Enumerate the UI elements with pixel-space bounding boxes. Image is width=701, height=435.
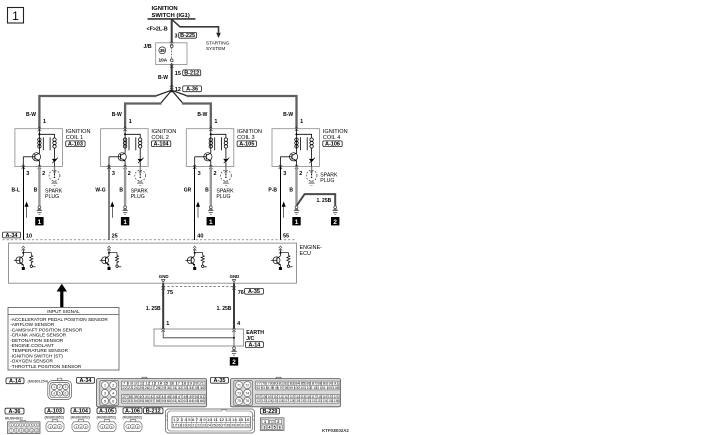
svg-text:B: B [34, 187, 38, 193]
svg-text:3: 3 [112, 171, 115, 177]
connector coil4 pin3 [279, 165, 282, 170]
svg-text:SWITCH (IG1): SWITCH (IG1) [152, 13, 190, 19]
svg-text:MU804931: MU804931 [5, 417, 23, 421]
svg-text:122 123 124 125 126 127 128 12: 122 123 124 125 126 127 128 129 130 131 … [257, 399, 339, 403]
connector boundary A-34 (dashed) [3, 239, 297, 241]
wire fan to coil 1 [39, 90, 171, 129]
svg-text:A-103: A-103 [68, 142, 83, 148]
svg-text:A-105: A-105 [99, 409, 114, 415]
page number box 1 [8, 8, 24, 24]
svg-text:11: 11 [30, 429, 33, 433]
svg-text:1: 1 [214, 119, 217, 125]
connector at coil2 pin1 [123, 127, 126, 132]
svg-text:77 78 79 80 81 82 83 84 85 86: 77 78 79 80 81 82 83 84 85 86 87 88 89 9… [257, 382, 339, 386]
svg-text:2: 2 [333, 219, 337, 226]
label SPARK PLUG 4 [320, 173, 338, 185]
svg-text:1: 1 [123, 219, 127, 226]
svg-text:71: 71 [237, 383, 241, 387]
svg-text:36: 36 [160, 48, 165, 53]
svg-text:10: 10 [26, 234, 32, 240]
wire B coil2 pin2 to ground [124, 167, 126, 206]
ECU driver circuit 4 [271, 246, 293, 270]
ECU driver circuit 2 [100, 246, 122, 270]
INPUT SIGNAL box [8, 308, 119, 371]
connector B-229 label [261, 408, 280, 415]
svg-text:3: 3 [65, 385, 67, 389]
svg-text:B-225: B-225 [180, 33, 195, 39]
svg-text:PLUG: PLUG [320, 178, 334, 184]
svg-text:A-35: A-35 [214, 378, 226, 384]
svg-text:A-34: A-34 [6, 233, 19, 239]
junction earth joint [233, 337, 235, 339]
node GND right [230, 274, 240, 282]
svg-text:10A: 10A [159, 58, 168, 63]
svg-text:10: 10 [25, 429, 29, 433]
svg-text:B-W: B-W [283, 112, 293, 118]
connector B-229 pinout drawing [260, 418, 284, 431]
ground coil4 branch [332, 206, 339, 214]
ground coil2 [122, 206, 129, 214]
svg-text:17 18 19 20 21 22 23 24 25 26: 17 18 19 20 21 22 23 24 25 26 27 28 29 3… [173, 424, 250, 428]
connector coil2 pin3 [107, 165, 110, 170]
svg-text:PLUG: PLUG [45, 194, 59, 200]
svg-text:(MU803652): (MU803652) [123, 416, 142, 420]
svg-text:KTF03E02A2: KTF03E02A2 [322, 428, 349, 433]
svg-text:76: 76 [238, 290, 244, 296]
wire fan to coil 3 [172, 90, 211, 129]
svg-text:A-103: A-103 [47, 409, 62, 415]
svg-text:75: 75 [237, 399, 241, 403]
svg-text:3: 3 [198, 171, 201, 177]
svg-text:75: 75 [167, 290, 173, 296]
ignition coil 4 [272, 129, 320, 167]
svg-text:A-36: A-36 [9, 409, 21, 415]
connector A-35 pinout drawing [231, 377, 341, 407]
connector A-34 label [3, 232, 21, 239]
svg-text:1. 25B: 1. 25B [146, 306, 161, 312]
connector A-104 pinout drawing [72, 420, 90, 432]
svg-text:A-106: A-106 [325, 142, 340, 148]
connector at earth pin4 [232, 327, 235, 332]
svg-text:B: B [289, 187, 293, 193]
svg-text:25: 25 [112, 234, 118, 240]
svg-text:W-G: W-G [95, 187, 105, 193]
svg-text:12: 12 [35, 429, 39, 433]
wire coil2 secondary to spark plug [139, 167, 141, 171]
ground point 1 (coil4) [292, 217, 300, 226]
node STARTING SYSTEM [206, 41, 230, 51]
svg-text:1: 1 [209, 219, 213, 226]
connector at coil3 pin1 [209, 127, 212, 132]
wire coil4 secondary to spark plug [311, 167, 313, 171]
label IGNITION COIL 4 A-106 [323, 129, 348, 147]
connector coil1 pin2 [38, 165, 41, 170]
ground point 2 (coil4 branch) [331, 217, 339, 226]
svg-text:2: 2 [232, 359, 236, 366]
svg-text:5: 5 [59, 392, 61, 396]
ground coil3 [208, 206, 215, 214]
svg-text:GND: GND [159, 274, 169, 279]
label IGNITION COIL 1 A-103 [66, 129, 91, 147]
svg-text:1. 25B: 1. 25B [217, 306, 232, 312]
svg-text:COIL 4: COIL 4 [323, 135, 341, 141]
wire ECU GND pin76 to earth [233, 283, 235, 329]
svg-text:J/B: J/B [144, 44, 152, 50]
svg-text:55: 55 [283, 234, 289, 240]
svg-text:1: 1 [300, 119, 303, 125]
svg-text:2: 2 [59, 385, 61, 389]
svg-text:PLUG: PLUG [131, 194, 145, 200]
connector at J/B entry [170, 41, 173, 46]
wire 1.25B coil4 body ground branch [297, 194, 336, 206]
wire B coil4 pin2 to ground [295, 167, 297, 206]
label SPARK PLUG 3 [216, 188, 234, 200]
wire ECU GND pin75 to earth [162, 283, 164, 329]
svg-text:2: 2 [214, 171, 217, 177]
ground point 1 (coil1) [35, 217, 43, 226]
svg-text:<F>2L-B: <F>2L-B [147, 27, 168, 33]
label SPARK PLUG 1 [45, 188, 63, 200]
label SPARK PLUG 2 [131, 188, 149, 200]
spark plug 3 [221, 170, 232, 185]
ground coil1 [36, 206, 43, 214]
connector A-35 label [211, 377, 229, 384]
wire inside earth joint [163, 331, 234, 338]
spark plug 2 [135, 170, 146, 185]
svg-text:1: 1 [12, 9, 19, 23]
connector at earth pin1 [162, 327, 165, 332]
wire fan to coil 2 [125, 90, 172, 129]
connector A-104 label [71, 408, 91, 420]
svg-text:3: 3 [283, 171, 286, 177]
connector coil3 pin2 [209, 165, 212, 170]
ECU driver circuit 3 [185, 246, 207, 270]
wire W-G coil2 pin3 to ECU pin25 [108, 167, 110, 240]
label IGNITION COIL 3 A-105 [237, 129, 262, 147]
svg-text:B: B [119, 187, 123, 193]
signal arrow coil4 [282, 202, 285, 218]
wire B coil1 pin2 to ground [38, 167, 40, 206]
svg-text:4: 4 [53, 392, 55, 396]
svg-text:SYSTEM: SYSTEM [206, 46, 225, 51]
wire B-W from J/B to branch junction [171, 65, 173, 92]
svg-text:92 93 94 95 96 97 98 99 100 10: 92 93 94 95 96 97 98 99 100 101 102 103 … [257, 386, 339, 390]
connector at coil4 pin1 [295, 127, 298, 132]
svg-text:1 2 3 4 5 6 7 8 9 10 11 12 13: 1 2 3 4 5 6 7 8 9 10 11 12 13 14 15 16 [173, 418, 250, 422]
svg-text:-THROTTLE POSITION SENSOR: -THROTTLE POSITION SENSOR [10, 364, 82, 369]
wire GR coil3 pin3 to ECU pin40 [194, 167, 196, 240]
svg-text:1: 1 [295, 219, 299, 226]
svg-text:1. 25B: 1. 25B [317, 198, 332, 204]
svg-text:B-212: B-212 [184, 71, 199, 77]
connector at J/B exit [170, 63, 173, 68]
svg-text:1: 1 [53, 385, 55, 389]
svg-text:1: 1 [129, 119, 132, 125]
svg-text:B-W: B-W [26, 112, 36, 118]
svg-text:B-229: B-229 [263, 409, 278, 415]
svg-text:B: B [205, 187, 209, 193]
svg-text:B-W: B-W [158, 75, 168, 81]
spark plug 4 [306, 170, 317, 185]
pin 3 connector B-225 [175, 32, 197, 39]
node GND left [159, 274, 169, 282]
svg-text:A-106: A-106 [125, 409, 140, 415]
connector A-36 label [5, 408, 24, 420]
svg-text:1: 1 [166, 321, 169, 327]
input signal arrow into ECU [57, 284, 67, 308]
spark plug 1 [49, 170, 60, 185]
connector at pin 76 [232, 285, 235, 290]
svg-text:76: 76 [245, 399, 249, 403]
svg-text:107 108 109 110 111 112 113 11: 107 108 109 110 111 112 113 114 115 116 … [257, 395, 339, 399]
wire coil1 secondary to spark plug [54, 167, 56, 171]
connector A-14 pinout drawing [48, 378, 72, 399]
connector A-34 pinout drawing [97, 377, 207, 407]
svg-text:3: 3 [175, 34, 178, 40]
pin 15 connector B-212 [175, 70, 201, 77]
ignition coil 1 (transformer, igniter transistor, diode) [15, 129, 63, 167]
connector A-14 label [6, 378, 49, 385]
svg-text:A-34: A-34 [80, 378, 93, 384]
svg-text:A-104: A-104 [73, 409, 89, 415]
connector at pin 75 [162, 285, 165, 290]
svg-text:A-104: A-104 [154, 142, 170, 148]
signal arrow coil3 [196, 202, 199, 218]
ignition coil 3 [186, 129, 234, 167]
connector coil2 pin2 [123, 165, 126, 170]
ground point 1 (coil3) [207, 217, 215, 226]
connector B-212 label [144, 408, 164, 415]
svg-text:COIL 1: COIL 1 [66, 135, 84, 141]
svg-text:2: 2 [42, 171, 45, 177]
svg-text:B-L: B-L [12, 187, 20, 193]
signal arrow coil2 [111, 202, 114, 218]
svg-text:1: 1 [43, 119, 46, 125]
svg-text:A-14: A-14 [248, 342, 261, 348]
svg-text:1: 1 [38, 219, 42, 226]
junction node of supply fan-out [170, 90, 173, 93]
connector coil1 pin3 [22, 165, 25, 170]
label EARTH J/C A-14 [245, 330, 264, 348]
connector B-212 pinout drawing [166, 409, 255, 433]
connector coil3 pin3 [193, 165, 196, 170]
svg-text:(MU803652): (MU803652) [97, 416, 116, 420]
pin 76 / connector A-35 label [238, 288, 264, 296]
connector A-105 pinout drawing [98, 420, 116, 432]
svg-text:(MU803652): (MU803652) [45, 416, 64, 420]
wire B-L coil1 pin3 to ECU pin10 [22, 167, 24, 240]
connector boundary A-35 (dashed) [163, 286, 234, 288]
arrow to starting system [216, 33, 221, 38]
svg-text:72: 72 [245, 383, 249, 387]
svg-text:B-W: B-W [112, 112, 122, 118]
connector A-36 pinout drawing [8, 420, 41, 433]
wire P-B coil4 pin3 to ECU pin55 [279, 167, 281, 240]
label ENGINE-ECU [300, 245, 323, 257]
wire fan to coil 4 [172, 90, 297, 129]
svg-text:A-35: A-35 [248, 289, 260, 295]
svg-text:3: 3 [26, 171, 29, 177]
svg-text:COIL 2: COIL 2 [151, 135, 169, 141]
svg-text:INPUT SIGNAL: INPUT SIGNAL [47, 309, 80, 314]
connector A-106 pinout drawing [124, 420, 142, 432]
wire B coil3 pin2 to ground [210, 167, 212, 206]
connector at coil1 pin1 [38, 127, 41, 132]
wire earth joint to ground [233, 338, 235, 347]
connector A-106 label [123, 408, 143, 420]
svg-text:2: 2 [299, 171, 302, 177]
signal arrow coil1 [25, 202, 28, 218]
connector A-103 pinout drawing [46, 420, 64, 432]
svg-text:73: 73 [237, 391, 241, 395]
svg-text:A-14: A-14 [9, 379, 22, 385]
svg-text:COIL 3: COIL 3 [237, 135, 255, 141]
svg-text:B-212: B-212 [146, 409, 161, 415]
svg-text:A-36: A-36 [186, 87, 198, 93]
svg-text:PLUG: PLUG [216, 194, 230, 200]
EARTH J/C box [154, 329, 244, 346]
svg-text:IGNITION: IGNITION [152, 6, 178, 12]
svg-text:(MU801254): (MU801254) [28, 379, 49, 383]
svg-text:A-105: A-105 [239, 142, 254, 148]
svg-text:15: 15 [175, 71, 181, 77]
connector at pin 12 (A-36) [170, 85, 173, 90]
ignition coil 2 [101, 129, 149, 167]
node IGNITION SWITCH (IG1) [148, 6, 196, 19]
svg-text:4: 4 [237, 321, 241, 327]
wire from ignition switch to J/B [171, 19, 173, 43]
connector A-105 label [97, 408, 117, 420]
wire branch to starting system [172, 19, 219, 33]
label IGNITION COIL 2 A-104 [151, 129, 176, 147]
pin 12 connector A-36 [175, 86, 202, 93]
svg-text:P-B: P-B [268, 187, 277, 193]
svg-text:GND: GND [230, 274, 240, 279]
wire coil3 secondary to spark plug [225, 167, 227, 171]
svg-text:7 8 9 10 11 12 13 14 15 16 1: 7 8 9 10 11 12 13 14 15 16 17 18 19 20 2… [123, 382, 204, 386]
svg-text:52 53 54 55 56 57 58 59 60 61: 52 53 54 55 56 57 58 59 60 61 62 63 64 6… [123, 399, 205, 403]
svg-text:40: 40 [197, 234, 203, 240]
svg-text:(MU803652): (MU803652) [71, 416, 90, 420]
connector A-103 label [45, 408, 65, 420]
svg-text:J/C: J/C [246, 336, 254, 342]
svg-text:ENGINE-: ENGINE- [300, 245, 323, 251]
ECU driver circuit 1 [14, 246, 36, 270]
fuse 36 10A [159, 45, 174, 63]
ENGINE-ECU box [9, 243, 297, 283]
ground point 2 (earth joint) [230, 357, 238, 366]
connector coil4 pin2 [295, 165, 298, 170]
junction block J/B [144, 43, 188, 65]
svg-text:2: 2 [128, 171, 131, 177]
svg-text:GR: GR [184, 187, 192, 193]
svg-text:ECU: ECU [300, 251, 311, 257]
ground point 1 (coil2) [121, 217, 129, 226]
svg-text:6: 6 [65, 392, 67, 396]
ground earth joint [231, 347, 238, 355]
svg-text:22 23 24 25 26 27 28 29 30 31: 22 23 24 25 26 27 28 29 30 31 32 33 34 3… [123, 386, 205, 390]
svg-text:37 38 39 40 41 42 43 44 45 46: 37 38 39 40 41 42 43 44 45 46 47 48 49 5… [123, 395, 205, 399]
connector A-34 label [77, 377, 95, 384]
svg-text:B-W: B-W [197, 112, 207, 118]
ground coil4 [293, 206, 300, 214]
svg-text:74: 74 [245, 391, 249, 395]
